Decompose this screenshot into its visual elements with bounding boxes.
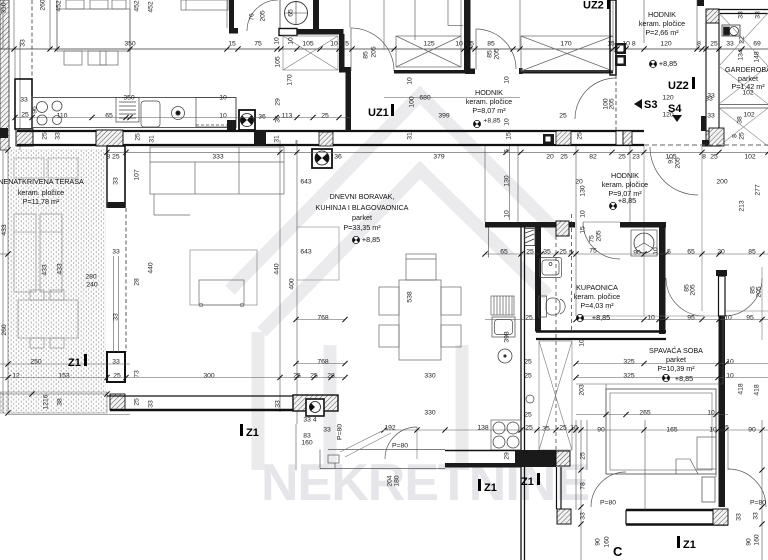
svg-text:25: 25 (524, 411, 532, 418)
svg-text:38: 38 (56, 398, 63, 406)
svg-text:433: 433 (1, 224, 8, 236)
svg-text:UZ2: UZ2 (583, 0, 604, 12)
svg-text:1216: 1216 (42, 394, 49, 409)
svg-text:KUHINJA I BLAGOVAONICA: KUHINJA I BLAGOVAONICA (316, 203, 409, 212)
svg-text:330: 330 (424, 372, 436, 379)
kitchen hood circle (172, 107, 185, 120)
bedroom bottom wall band (626, 510, 728, 525)
svg-text:643: 643 (300, 178, 312, 185)
svg-text:C: C (613, 544, 623, 559)
rug area center (297, 227, 339, 280)
svg-text:65: 65 (687, 248, 695, 255)
bottom long wall band (107, 396, 293, 410)
wall band blocks F (616, 131, 632, 145)
svg-text:160: 160 (603, 536, 610, 548)
window 2 sill (520, 70, 613, 74)
garderoba shelf line (719, 105, 768, 109)
svg-text:205: 205 (493, 48, 500, 60)
svg-text:85: 85 (362, 51, 369, 59)
svg-text:160: 160 (753, 534, 760, 546)
dashed centerlines (571, 214, 573, 331)
svg-text:102: 102 (743, 111, 755, 118)
svg-text:10: 10 (455, 40, 463, 47)
svg-text:100: 100 (408, 96, 415, 108)
svg-text:170: 170 (286, 74, 293, 86)
svg-text:HODNIK: HODNIK (648, 10, 676, 19)
svg-text:105: 105 (302, 40, 314, 47)
svg-text:95: 95 (746, 314, 754, 321)
svg-text:33: 33 (737, 11, 744, 19)
svg-text:433: 433 (41, 264, 48, 276)
svg-text:452: 452 (147, 1, 154, 13)
corridor thin line x644 (643, 146, 645, 316)
svg-text:31: 31 (273, 135, 280, 143)
kitchen counter outline (32, 98, 236, 128)
svg-text:25: 25 (321, 112, 329, 119)
svg-text:325: 325 (623, 358, 635, 365)
svg-text:+8,85: +8,85 (659, 59, 677, 68)
svg-text:10: 10 (273, 37, 280, 45)
shelf cabinet in column (525, 229, 536, 246)
svg-text:265: 265 (639, 409, 651, 416)
svg-text:440: 440 (273, 263, 280, 275)
svg-text:28: 28 (133, 278, 140, 286)
svg-text:120: 120 (662, 94, 674, 101)
balcony door arc bottom left (591, 472, 626, 507)
exterior hatched wall strip left edge (0, 0, 9, 150)
kitchen fridge (141, 101, 160, 127)
svg-text:36: 36 (334, 153, 342, 160)
terrace table set (18, 290, 78, 348)
svg-text:105: 105 (274, 56, 281, 68)
WC door jamb block (279, 29, 297, 36)
svg-text:205: 205 (689, 284, 696, 296)
window 1 sill (394, 70, 472, 74)
terrace floor hatch (8, 149, 106, 407)
svg-text:25: 25 (576, 132, 583, 140)
svg-text:NENATKRIVENA TERASA: NENATKRIVENA TERASA (0, 177, 84, 186)
svg-text:768: 768 (317, 314, 329, 321)
bedroom top wall double (536, 332, 666, 340)
nightstand (702, 477, 715, 502)
svg-text:680: 680 (419, 94, 431, 101)
svg-text:25: 25 (710, 40, 718, 47)
dashed door line hodnik small (615, 75, 617, 131)
svg-text:15: 15 (607, 40, 615, 47)
svg-text:200: 200 (716, 178, 728, 185)
WC right wall black (313, 0, 319, 29)
svg-text:25: 25 (560, 153, 568, 160)
svg-text:31: 31 (406, 132, 413, 140)
svg-text:35: 35 (543, 248, 551, 255)
svg-text:10: 10 (406, 77, 413, 85)
svg-text:KUPAONICA: KUPAONICA (576, 283, 618, 292)
svg-text:10: 10 (652, 247, 659, 255)
svg-text:Z1: Z1 (683, 539, 696, 551)
svg-text:parket: parket (352, 213, 372, 222)
kitchen balcony door swing lines (340, 428, 391, 457)
svg-text:125: 125 (423, 40, 435, 47)
svg-text:538: 538 (406, 291, 413, 303)
bathroom right wall (659, 222, 666, 334)
svg-text:205: 205 (259, 10, 266, 22)
bathroom top wall (620, 222, 666, 228)
wall piece right of band end (702, 140, 721, 147)
door arc at hall right (476, 29, 516, 70)
svg-text:P=80: P=80 (600, 499, 616, 506)
bedroom door arc left (666, 278, 704, 316)
svg-text:75: 75 (254, 40, 262, 47)
svg-text:25: 25 (618, 153, 626, 160)
wall band hatch pillar A (96, 130, 123, 146)
kitchen island counter side line (488, 228, 490, 258)
bedroom bottom hatch pillar (713, 509, 728, 525)
wardrobe X right top (719, 13, 768, 146)
dashed wall continuation right (644, 144, 768, 146)
svg-text:250: 250 (30, 358, 42, 365)
wall right of window 2 (610, 0, 616, 75)
svg-text:33: 33 (112, 313, 119, 321)
svg-text:153: 153 (58, 372, 70, 379)
svg-text:29: 29 (503, 452, 510, 460)
svg-text:10: 10 (647, 314, 655, 321)
wall below WC vertical (339, 34, 345, 68)
window 1 crossed rect (396, 0, 463, 67)
svg-text:130: 130 (579, 185, 586, 197)
balcony door arc bottom right (728, 469, 766, 507)
wall foot below window pillar (465, 69, 475, 75)
svg-text:10: 10 (707, 409, 715, 416)
svg-text:85: 85 (486, 50, 493, 58)
svg-text:76: 76 (248, 13, 255, 21)
door arc hodnik small (575, 78, 616, 119)
svg-text:SPAVAĆA SOBA: SPAVAĆA SOBA (649, 346, 703, 355)
svg-text:8 25: 8 25 (106, 153, 119, 160)
wall stub top edge right (697, 0, 704, 6)
svg-text:33: 33 (735, 513, 742, 521)
dining table top-left with chairs (57, 0, 130, 65)
svg-text:75: 75 (589, 247, 597, 254)
wardrobe X closet middle (539, 341, 572, 450)
svg-text:HODNIK: HODNIK (475, 88, 503, 97)
svg-text:keram. pločice: keram. pločice (574, 292, 620, 301)
sideboard top-left room (181, 0, 228, 10)
wall band black pillar B (254, 130, 266, 146)
svg-text:260: 260 (39, 0, 46, 11)
svg-text:379: 379 (433, 153, 445, 160)
svg-text:102: 102 (744, 153, 756, 160)
svg-text:25: 25 (525, 314, 533, 321)
svg-text:10: 10 (330, 40, 338, 47)
wall pillar between windows (464, 0, 471, 70)
svg-text:+8,85: +8,85 (362, 235, 380, 244)
kitchen bottom wall band (445, 450, 556, 468)
svg-text:325: 325 (623, 372, 635, 379)
balcony steps lines (320, 450, 445, 469)
svg-text:65: 65 (105, 112, 113, 119)
svg-text:15: 15 (579, 226, 586, 234)
svg-text:134: 134 (737, 49, 744, 61)
kitchen hob circle (498, 349, 512, 363)
svg-text:350: 350 (123, 94, 135, 101)
watermark house logo (230, 95, 560, 470)
terrace lounger 1 (14, 214, 62, 292)
svg-text:+8,85: +8,85 (618, 196, 636, 205)
svg-text:205: 205 (370, 46, 377, 58)
svg-text:400: 400 (288, 278, 295, 290)
svg-text:33: 33 (726, 40, 734, 47)
svg-text:138: 138 (477, 424, 489, 431)
svg-text:10: 10 (724, 314, 732, 321)
bedroom door arc right (724, 278, 762, 316)
svg-text:110: 110 (57, 112, 68, 119)
svg-text:S4: S4 (668, 103, 682, 115)
wall to band vertical (346, 72, 352, 131)
svg-text:768: 768 (317, 358, 329, 365)
garderoba washbasin (722, 25, 740, 36)
svg-text:33: 33 (112, 248, 120, 255)
bathroom washbasin (540, 258, 562, 278)
elevation markers (352, 60, 669, 381)
svg-text:25: 25 (559, 112, 567, 119)
svg-text:10: 10 (287, 37, 294, 45)
svg-text:25: 25 (524, 358, 532, 365)
svg-text:+8,85: +8,85 (592, 313, 610, 322)
svg-text:85: 85 (748, 248, 756, 255)
svg-text:20: 20 (575, 178, 583, 185)
fridge shelf unit (491, 296, 514, 315)
svg-text:277: 277 (754, 184, 761, 196)
terrace hatch lower band (0, 392, 107, 413)
bedroom top boundary line (576, 315, 718, 317)
svg-text:8: 8 (731, 134, 738, 138)
left room divider wall with cap (107, 146, 125, 208)
svg-text:P=4,03 m²: P=4,03 m² (580, 301, 614, 310)
svg-text:204: 204 (386, 475, 393, 487)
svg-text:91: 91 (667, 156, 674, 164)
svg-text:205: 205 (674, 157, 681, 169)
wall band hatch pillar C (319, 132, 333, 146)
svg-text:DNEVNI BORAVAK,: DNEVNI BORAVAK, (330, 192, 395, 201)
left margin rotated dims (0, 2, 7, 336)
room labels (0, 10, 768, 383)
svg-text:parket: parket (666, 355, 686, 364)
svg-text:S3: S3 (644, 99, 657, 111)
terrace wall lower column (107, 352, 125, 410)
window2 left jamb (519, 68, 523, 74)
svg-text:25: 25 (559, 424, 567, 431)
svg-text:418: 418 (753, 384, 760, 396)
svg-text:10: 10 (570, 424, 578, 431)
window 2 crossed rect (521, 36, 613, 71)
svg-text:UZ1: UZ1 (368, 107, 389, 119)
svg-text:260: 260 (1, 324, 8, 336)
corridor thin line x702 (701, 146, 703, 311)
svg-text:22: 22 (738, 36, 745, 44)
svg-text:452: 452 (133, 0, 140, 12)
kitchen tall wall hollow left (15, 79, 32, 129)
garderoba wall black piece (701, 116, 706, 131)
svg-text:148: 148 (753, 51, 760, 63)
svg-text:keram. pločice: keram. pločice (18, 188, 64, 197)
svg-text:83: 83 (303, 432, 311, 439)
svg-text:keram. pločice: keram. pločice (602, 180, 648, 189)
right edge corner lines bottom right (724, 267, 768, 340)
svg-text:25: 25 (293, 372, 301, 379)
svg-text:+8,85: +8,85 (675, 374, 693, 383)
svg-text:180: 180 (393, 475, 400, 487)
hatch pillar bottom of that wall (557, 509, 571, 524)
svg-text:33: 33 (20, 96, 28, 103)
svg-text:23: 23 (632, 153, 640, 160)
svg-text:GARDEROBA: GARDEROBA (725, 65, 768, 74)
svg-text:UZ2: UZ2 (668, 80, 689, 92)
svg-text:10: 10 (726, 372, 734, 379)
svg-text:78: 78 (579, 482, 586, 490)
svg-text:P=80: P=80 (336, 424, 343, 440)
svg-text:keram. pločice: keram. pločice (639, 19, 685, 28)
garderoba hatch pillar top (706, 9, 719, 23)
svg-text:31: 31 (148, 135, 155, 143)
svg-text:P=33,35 m²: P=33,35 m² (343, 223, 381, 232)
svg-text:65: 65 (287, 9, 294, 17)
terrace dim verticals (114, 256, 119, 352)
svg-text:33: 33 (579, 512, 586, 520)
terrace boundary dashed (125, 208, 127, 352)
svg-text:25: 25 (41, 132, 48, 140)
svg-text:P=80: P=80 (392, 442, 408, 449)
svg-text:33: 33 (707, 112, 715, 119)
bottom wall pillar with vent (293, 395, 338, 416)
svg-text:8: 8 (503, 463, 510, 467)
svg-text:440: 440 (147, 262, 154, 274)
svg-text:205: 205 (608, 98, 615, 110)
svg-text:33: 33 (112, 177, 119, 185)
wall corner black end of counter (227, 120, 236, 131)
window opening left of hall (crossed) (283, 36, 338, 70)
wall band hatch pillar E (556, 131, 571, 145)
kitchen sink unit lower (492, 317, 515, 337)
kitchen wall hatch pillar (16, 129, 33, 146)
svg-text:33: 33 (752, 512, 759, 520)
bed (606, 389, 716, 474)
svg-text:90: 90 (745, 538, 752, 546)
svg-text:keram. pločice: keram. pločice (466, 97, 512, 106)
door arc into left room (247, 0, 278, 31)
stove 4 burners bottom (491, 420, 521, 450)
WC washbasin circle (285, 2, 308, 25)
vent box below band (312, 149, 332, 168)
rug living room (190, 250, 257, 305)
svg-text:113: 113 (282, 112, 293, 119)
svg-text:300: 300 (203, 372, 215, 379)
shower cabin (631, 230, 657, 256)
svg-text:Z1: Z1 (521, 476, 534, 488)
svg-text:65: 65 (500, 248, 508, 255)
svg-text:95: 95 (687, 314, 695, 321)
dims 204 180 rotated (386, 475, 400, 487)
svg-text:25: 25 (524, 372, 532, 379)
svg-text:36: 36 (258, 113, 266, 120)
svg-text:10: 10 (503, 118, 510, 126)
svg-text:15: 15 (505, 132, 512, 140)
svg-text:38: 38 (736, 116, 743, 124)
wall left of WC vertical (229, 0, 238, 34)
svg-text:28: 28 (327, 372, 335, 379)
svg-text:25: 25 (579, 452, 586, 460)
svg-text:20: 20 (546, 153, 554, 160)
svg-text:12: 12 (12, 372, 20, 379)
svg-text:33: 33 (754, 11, 761, 19)
dining table 2 (379, 280, 461, 360)
svg-text:25: 25 (310, 372, 318, 379)
kitchen cabinet right (196, 98, 236, 128)
WC bottom wall (297, 29, 344, 35)
svg-text:25: 25 (525, 424, 533, 431)
svg-text:33: 33 (705, 95, 713, 102)
svg-text:Z1: Z1 (484, 482, 497, 494)
svg-text:33: 33 (54, 132, 61, 140)
svg-text:418: 418 (737, 383, 744, 395)
svg-text:Z1: Z1 (246, 427, 259, 439)
bathroom toilet (539, 296, 566, 317)
svg-text:170: 170 (560, 40, 572, 47)
svg-text:10: 10 (579, 210, 586, 218)
svg-text:205: 205 (595, 230, 602, 242)
svg-text:10: 10 (578, 339, 585, 347)
terrace furniture top (14, 158, 78, 178)
bathroom door arc (583, 222, 620, 259)
svg-text:P=2,66 m²: P=2,66 m² (645, 28, 679, 37)
dimension verticals living room (14, 0, 297, 424)
kitchen hob burners (37, 101, 63, 125)
svg-text:310: 310 (0, 2, 7, 14)
svg-text:120: 120 (660, 40, 672, 47)
svg-text:P=10,39 m²: P=10,39 m² (657, 364, 695, 373)
svg-text:205: 205 (755, 286, 762, 298)
coffee table with corner dots (199, 280, 244, 307)
kitchen column wall B black (535, 228, 541, 332)
svg-text:33: 33 (147, 400, 154, 408)
svg-text:25: 25 (113, 372, 121, 379)
svg-text:643: 643 (300, 248, 312, 255)
svg-text:333: 333 (212, 153, 224, 160)
electric boxes on wall (615, 43, 626, 66)
svg-text:280: 280 (85, 273, 97, 280)
svg-text:Z1: Z1 (68, 357, 81, 369)
svg-text:P=8,07 m²: P=8,07 m² (472, 106, 506, 115)
svg-text:85: 85 (487, 40, 495, 47)
wall band block D (543, 134, 554, 144)
svg-text:203: 203 (578, 384, 585, 396)
svg-text:5: 5 (345, 40, 349, 47)
vent box above band (239, 110, 255, 130)
svg-text:69: 69 (753, 40, 761, 47)
svg-text:33: 33 (19, 39, 26, 47)
svg-text:10: 10 (219, 112, 227, 119)
svg-text:25: 25 (559, 248, 567, 255)
WC left jamb lines (279, 0, 281, 29)
svg-text:33: 33 (323, 426, 331, 433)
svg-text:90: 90 (594, 538, 601, 546)
dashed reference line kitchen (31, 0, 33, 96)
garderoba top wall (706, 10, 768, 14)
svg-text:P=1,42 m²: P=1,42 m² (731, 82, 765, 91)
svg-text:35: 35 (542, 425, 550, 432)
S3 S4 markers (634, 99, 682, 122)
bedroom right wall black (719, 316, 726, 507)
svg-text:25: 25 (526, 248, 534, 255)
